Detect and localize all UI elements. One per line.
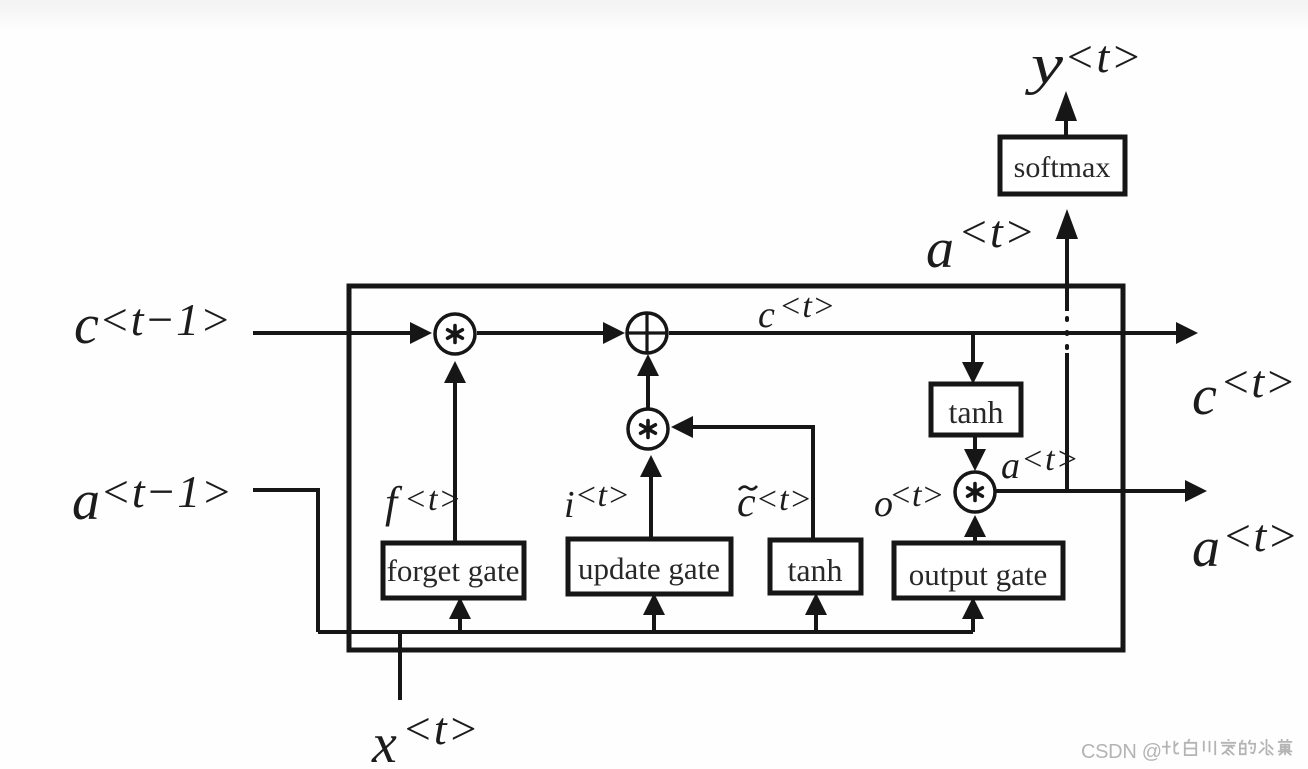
arrowhead a output [1185, 480, 1207, 502]
wire x input vertical [398, 632, 402, 700]
top gradient strip [0, 0, 1308, 34]
wire a bus inside box [318, 630, 973, 634]
arrowhead down into tanh right [962, 362, 984, 384]
arrowhead bus up into output gate [962, 597, 984, 619]
arrowhead f up into multiply1 [444, 361, 466, 383]
wire arrow shaft to update gate [652, 612, 656, 632]
wire c-line mid segment [477, 331, 605, 335]
svg-text:<t>: <t> [1021, 441, 1080, 478]
wire tanh right to multiply3 [973, 435, 977, 451]
arrowhead down into multiply3 [964, 449, 986, 471]
svg-text:a<t>: a<t> [926, 206, 1036, 280]
svg-text:a<t−1>: a<t−1> [72, 466, 233, 532]
wire output gate to multiply3 [973, 534, 977, 542]
wire f gate to multiply [453, 382, 457, 544]
arrowhead ctilde into multiply2 [671, 416, 693, 438]
plus node [627, 313, 667, 353]
svg-text:CSDN @: CSDN @ [1081, 741, 1162, 763]
svg-text:x<t>: x<t> [371, 703, 480, 769]
wire a input horizontal [253, 490, 318, 632]
svg-text:softmax: softmax [1014, 151, 1111, 184]
softmax box [1000, 137, 1125, 194]
wire c-line output segment [669, 331, 1178, 335]
svg-text:forget gate: forget gate [387, 553, 520, 588]
svg-text:y<t>: y<t> [1025, 31, 1143, 96]
svg-text:c<t>: c<t> [1192, 356, 1296, 427]
watermark CSDN [1081, 741, 1162, 763]
arrowhead output gate up into multiply3 [964, 515, 986, 537]
arrowhead softmax to y [1055, 91, 1077, 121]
svg-text:o<t>: o<t> [874, 477, 944, 525]
svg-text:c<t−1>: c<t−1> [74, 294, 232, 356]
wire multiply2 to plus [646, 375, 650, 408]
svg-text:tanh: tanh [948, 394, 1003, 430]
svg-text:update gate: update gate [578, 551, 720, 586]
arrowhead into plus [603, 322, 625, 344]
arrowhead bus up into tanh left [805, 593, 827, 615]
wire arrow shaft to output gate [971, 616, 975, 632]
tanh left box [770, 540, 861, 593]
wire update gate to multiply2 [649, 476, 653, 539]
wire softmax vertical lower [1065, 353, 1069, 491]
update gate box [568, 539, 731, 594]
svg-text:<t>: <t> [404, 481, 462, 518]
svg-text:i<t>: i<t> [564, 477, 630, 526]
multiply node 1 [435, 314, 475, 354]
arrowhead c output [1176, 322, 1198, 344]
arrowhead update up into multiply2 [640, 455, 662, 477]
wire a-line output [996, 489, 1186, 493]
wire ctilde horizontal [692, 427, 813, 540]
wire arrow shaft to forget gate [458, 616, 462, 632]
arrowhead into multiply1 [410, 322, 432, 344]
svg-text:tanh: tanh [787, 552, 842, 588]
arrowhead multiply2 up into plus [637, 354, 659, 376]
tanh right box [931, 384, 1021, 435]
wire softmax vertical upper [1065, 238, 1069, 311]
arrowhead bus up into update gate [643, 593, 665, 615]
multiply node 3 [955, 472, 995, 512]
wire arrow shaft to tanh left [814, 612, 818, 632]
svg-text:f: f [385, 478, 403, 527]
output gate box [894, 543, 1063, 598]
arrowhead up into softmax [1056, 209, 1078, 239]
wire softmax to y arrow shaft [1064, 119, 1068, 137]
svg-text:a<t>: a<t> [1192, 510, 1298, 579]
wire c-line down to tanh right [971, 333, 975, 363]
wire softmax vertical dash-dot [1065, 315, 1069, 348]
watermark CJK glyphs [1162, 739, 1292, 755]
svg-text:output gate: output gate [909, 557, 1048, 592]
svg-text:c<t>: c<t> [758, 288, 836, 336]
forget gate box [383, 543, 524, 598]
svg-text:a: a [1001, 445, 1020, 487]
LSTM cell outer box [349, 286, 1123, 650]
multiply node 2 [628, 409, 668, 449]
wire c-line input segment [253, 331, 412, 335]
arrowhead bus up into forget gate [449, 597, 471, 619]
